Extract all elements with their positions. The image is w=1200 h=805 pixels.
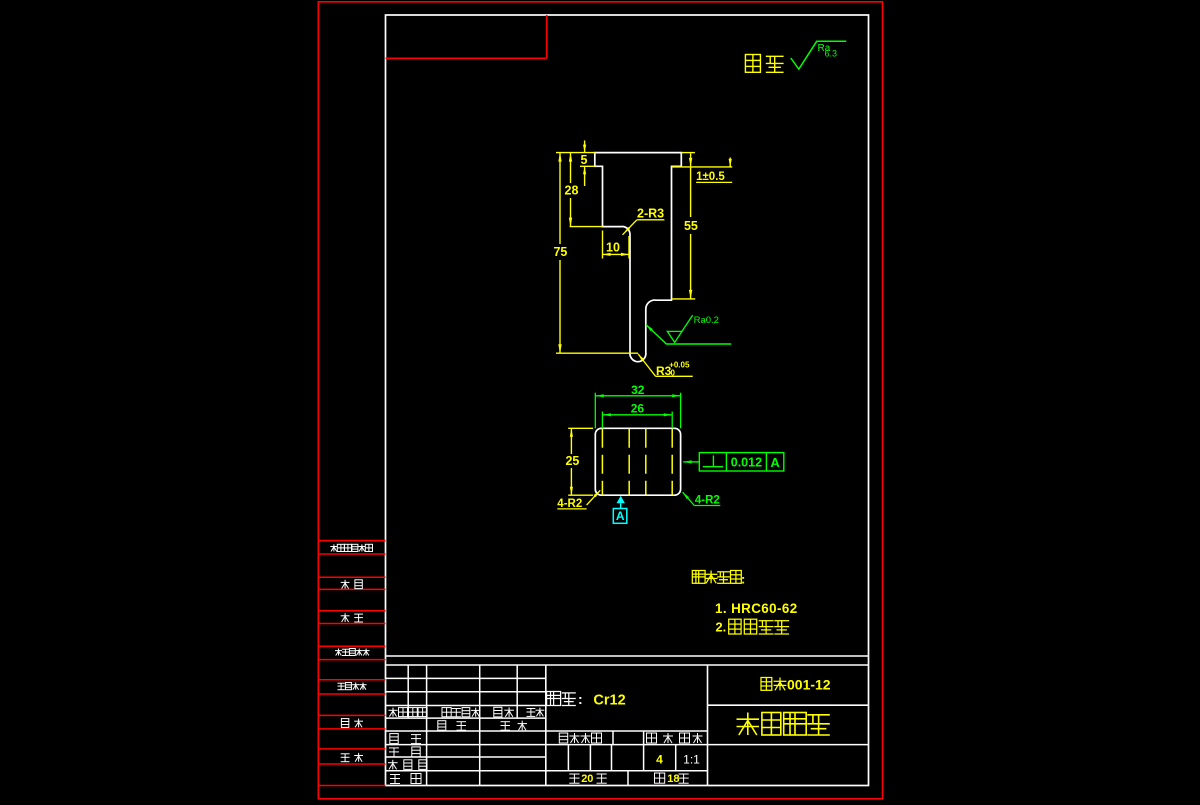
svg-text:75: 75 [553, 245, 567, 259]
technical requirements heading [692, 571, 705, 584]
svg-text:20: 20 [581, 773, 593, 785]
other-surfaces roughness note 其余 [745, 55, 760, 73]
svg-text:18: 18 [667, 773, 679, 785]
svg-text:32: 32 [631, 383, 645, 397]
left margin column rows [318, 540, 385, 542]
sheet count [569, 773, 579, 775]
svg-text:4: 4 [656, 753, 663, 767]
sheet index [655, 773, 665, 783]
svg-text:1:1: 1:1 [683, 753, 700, 767]
extension line flange bottom left [580, 165, 595, 167]
dimension 1±0.5 [729, 158, 731, 167]
svg-text:4-R2: 4-R2 [695, 494, 720, 506]
extension line step right [672, 298, 695, 300]
title block texts [392, 708, 394, 717]
svg-text:A: A [616, 509, 625, 523]
svg-text:5: 5 [581, 153, 588, 167]
roughness check symbol [791, 41, 847, 69]
svg-text:1±0.5: 1±0.5 [696, 171, 725, 183]
svg-text:1. HRC60-62: 1. HRC60-62 [715, 601, 798, 616]
dimension 75 [559, 153, 561, 244]
datum A symbol (cyan) [617, 496, 625, 504]
dimension 32 (green) [594, 393, 596, 429]
part name 弯曲凸模 [747, 713, 749, 736]
svg-text::: : [578, 691, 583, 707]
svg-text:Cr12: Cr12 [593, 693, 625, 709]
dimension 5 [584, 141, 586, 153]
svg-text:A: A [770, 455, 780, 470]
svg-text::: : [741, 572, 745, 587]
svg-text:Ra0.2: Ra0.2 [694, 315, 719, 326]
left column labels [333, 544, 335, 551]
svg-text:55: 55 [684, 219, 698, 233]
material label [547, 692, 561, 706]
outer red border [318, 2, 882, 799]
extension line step left [570, 226, 603, 228]
title block horizontal lines [386, 655, 869, 657]
dimension 25 (yellow) [568, 427, 593, 429]
svg-text:0.012: 0.012 [731, 456, 762, 470]
dimension 26 (green) [601, 412, 603, 429]
dimension 28 [570, 153, 572, 183]
extension line bottom tip [556, 352, 638, 354]
extension line top [556, 152, 595, 154]
extension line flange bottom right [672, 166, 733, 168]
inner white frame [386, 15, 869, 786]
top-left red corner box [386, 57, 547, 59]
svg-text:2.: 2. [716, 620, 727, 635]
svg-text:001-12: 001-12 [787, 677, 831, 693]
hidden dashed lines [601, 429, 603, 495]
feature control frame 0.012 A [699, 453, 784, 471]
svg-text:6.3: 6.3 [825, 49, 838, 59]
surface finish Ra0.2 leader [646, 325, 731, 344]
svg-text:28: 28 [565, 184, 579, 198]
svg-text:0: 0 [671, 368, 676, 377]
punch profile outline [595, 153, 682, 362]
svg-text:26: 26 [631, 402, 645, 416]
dimension 10 [628, 236, 630, 259]
svg-text:10: 10 [606, 241, 620, 255]
lower view rounded rectangle [595, 428, 680, 495]
svg-text:4-R2: 4-R2 [557, 498, 582, 510]
label R3 +0.05/0 [656, 375, 693, 377]
svg-text:2-R3: 2-R3 [637, 207, 664, 221]
Ra0.2 triangle symbol [667, 331, 682, 342]
dimension 55 [690, 153, 692, 217]
svg-text:25: 25 [565, 454, 579, 468]
drawing number [761, 678, 772, 691]
title block vertical lines [407, 665, 409, 718]
